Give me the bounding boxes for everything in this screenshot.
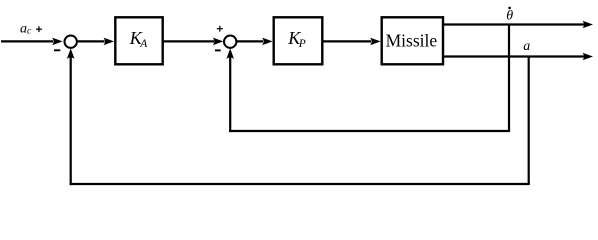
wire KA to S2 [164,40,215,42]
plus sign at summing junction S2 [217,28,223,30]
minus sign at summing junction S1 [54,49,60,51]
block Missile [382,17,443,64]
wire S2 to KP [237,40,263,42]
svg-text:a: a [523,39,530,54]
wire S1 to KA [78,40,105,42]
block KP [274,17,323,64]
wire input a_c to S1 [1,40,53,42]
wire outer feedback up into S1 [70,57,72,186]
wire Missile to thetadot output [443,23,584,25]
wire outer feedback bottom [70,183,530,185]
svg-text:P: P [298,38,306,50]
wire inner feedback up into S2 [229,57,231,133]
wire inner feedback bottom [229,130,510,132]
summing junction S1 [65,36,77,48]
block KA [115,17,162,64]
wire Missile to a output [443,55,584,57]
wire outer feedback a down [528,57,530,185]
wire inner feedback thetadot down [508,25,510,132]
svg-text:ac: ac [20,21,32,36]
summing junction S2 [224,36,236,48]
minus sign at summing junction S2 [215,49,221,51]
svg-text:Missile: Missile [386,31,438,51]
svg-text:θ: θ [506,9,513,24]
svg-text:A: A [139,38,148,50]
plus sign at summing junction S1 [36,28,42,30]
wire KP to Missile [323,40,371,42]
